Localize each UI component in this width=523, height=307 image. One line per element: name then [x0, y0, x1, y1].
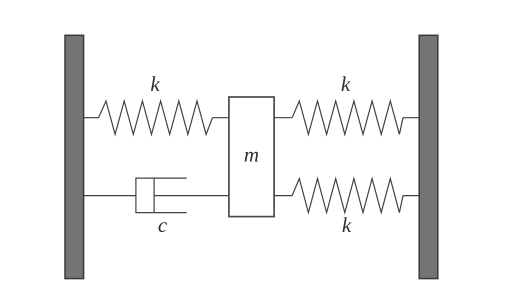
damper C1 cylinder (open right): [136, 178, 187, 213]
right wall: [419, 35, 438, 278]
svg-text:c: c: [158, 213, 168, 237]
spring K1 (top-left, k): [99, 101, 213, 134]
left wall: [65, 35, 84, 278]
damper C1 piston rod: [154, 195, 229, 197]
svg-text:k: k: [150, 72, 160, 96]
wire: mass to spring K2: [274, 117, 293, 119]
mass m (block): [229, 97, 274, 217]
wire: mass to spring K3: [274, 195, 293, 197]
wire: spring K3 to right wall: [403, 195, 420, 197]
spring K2 (top-right, k): [292, 101, 403, 134]
svg-text:k: k: [342, 213, 352, 237]
wire: spring K2 to right wall: [403, 117, 420, 119]
damper C1 piston plate: [153, 178, 155, 213]
wire: spring K1 to mass: [212, 117, 229, 119]
spring K3 (bottom-right, k): [292, 179, 403, 213]
wire: left wall to damper C1: [84, 195, 137, 197]
svg-text:k: k: [341, 72, 351, 96]
svg-text:m: m: [244, 143, 259, 167]
wire: left wall to spring K1: [84, 117, 99, 119]
